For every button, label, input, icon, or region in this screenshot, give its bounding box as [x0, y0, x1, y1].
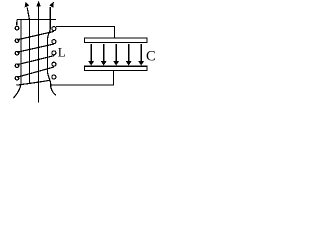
field line B — [27, 7, 29, 83]
wire bottom — [51, 71, 113, 85]
E-field arrow 5 — [140, 44, 142, 62]
E-field arrow 3 — [115, 44, 117, 62]
svg-text:C: C — [146, 48, 156, 64]
coil winding stroke 4 — [17, 67, 54, 77]
svg-text:L: L — [58, 45, 66, 60]
field line A — [13, 20, 21, 98]
coil bottom winding stroke — [16, 80, 50, 85]
coil winding stroke 3 — [17, 56, 54, 65]
coil right curl 5 — [52, 75, 56, 79]
field line C — [38, 6, 40, 103]
capacitor C bottom plate — [85, 66, 148, 70]
coil left curl 4 — [15, 64, 19, 68]
wire top — [56, 26, 114, 38]
coil left curl 1 — [15, 26, 19, 30]
coil left curl 3 — [15, 51, 19, 55]
E-field arrow 4 — [128, 44, 130, 62]
coil left curl 2 — [15, 39, 19, 43]
field line D — [48, 7, 56, 95]
coil right curl 3 — [52, 51, 56, 55]
coil right curl 4 — [52, 62, 56, 66]
coil left curl 5 — [15, 76, 19, 80]
E-field arrow 1 — [90, 44, 92, 62]
coil winding stroke 1 — [17, 31, 54, 40]
coil right curl 1 — [52, 27, 56, 31]
field line D arrowhead — [50, 2, 54, 7]
coil right curl 2 — [52, 40, 56, 44]
coil winding stroke 2 — [17, 44, 54, 52]
field line B arrowhead — [25, 2, 29, 7]
field line C arrowhead — [37, 1, 41, 6]
E-field arrow 2 — [103, 44, 105, 62]
inductor L coil top bar — [17, 20, 56, 26]
capacitor C top plate — [85, 38, 148, 43]
